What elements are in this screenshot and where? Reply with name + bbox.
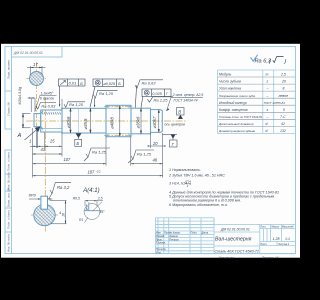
- svg-text:Коэфф. смещения: Коэфф. смещения: [219, 108, 248, 112]
- svg-text:48: 48: [153, 157, 158, 162]
- svg-text:Б: Б: [76, 141, 79, 146]
- svg-text:6 Маркировать обозначение, т.о: 6 Маркировать обозначение, т.о.: [169, 203, 228, 207]
- svg-text:Т.контр.: Т.контр.: [156, 242, 166, 245]
- svg-text:0,01: 0,01: [69, 81, 77, 86]
- svg-text:М20х1,5-8g: М20х1,5-8g: [18, 87, 22, 105]
- svg-text:132: 132: [280, 129, 286, 133]
- svg-text:Ra 1,25: Ra 1,25: [154, 98, 169, 103]
- svg-text:Делительный диаметр: Делительный диаметр: [218, 122, 254, 126]
- svg-text:Вал-шестерня: Вал-шестерня: [215, 236, 252, 242]
- svg-text:Подп. и дата: Подп. и дата: [6, 210, 10, 229]
- svg-text:Перв. примен.: Перв. примен.: [6, 59, 10, 79]
- svg-text:Инв. № дубл.: Инв. № дубл.: [6, 171, 10, 190]
- svg-text:Ra 1,25: Ra 1,25: [137, 152, 152, 157]
- svg-text:Подп.: Подп.: [191, 232, 198, 235]
- svg-text:Угол наклона: Угол наклона: [219, 87, 241, 91]
- svg-text:–: –: [266, 115, 269, 119]
- svg-text:26: 26: [62, 213, 66, 218]
- svg-text:Диаметр вершин зубьев: Диаметр вершин зубьев: [218, 129, 255, 133]
- svg-text:Ra 1,25: Ra 1,25: [69, 102, 84, 107]
- svg-text:107: 107: [64, 157, 72, 162]
- svg-text:⌀0,025: ⌀0,025: [103, 82, 116, 86]
- svg-text:Б: Б: [80, 81, 83, 86]
- svg-text:1,6х45°: 1,6х45°: [41, 91, 54, 95]
- svg-text:42: 42: [281, 122, 285, 126]
- svg-text:8: 8: [283, 87, 285, 91]
- svg-text:20: 20: [281, 80, 286, 84]
- svg-text:⌀48k8: ⌀48k8: [110, 116, 115, 129]
- svg-text:ГОСТ 13755-81: ГОСТ 13755-81: [264, 101, 286, 105]
- svg-text:8Р9: 8Р9: [29, 193, 37, 198]
- svg-text:25: 25: [49, 139, 55, 144]
- svg-text:Ra 0,63: Ra 0,63: [142, 80, 157, 85]
- svg-text:Дата: Дата: [201, 232, 209, 235]
- svg-text:Сталь 40Х ГОСТ 4543-71: Сталь 40Х ГОСТ 4543-71: [215, 250, 259, 254]
- svg-text:Ra 3,2: Ra 3,2: [57, 185, 70, 190]
- svg-text:7-С: 7-С: [280, 115, 286, 119]
- svg-text:Лист: Лист: [259, 243, 266, 246]
- svg-text:⌀30k6: ⌀30k6: [66, 116, 71, 129]
- svg-text:-0,2: -0,2: [96, 170, 101, 174]
- svg-text:левое: левое: [278, 94, 289, 98]
- svg-text:ДМ 02.01.00.00.01: ДМ 02.01.00.00.01: [220, 227, 250, 231]
- svg-text:Ra 0,63: Ra 0,63: [41, 104, 56, 109]
- svg-text:х: х: [266, 108, 269, 112]
- svg-text:⌀38k6: ⌀38k6: [135, 116, 140, 129]
- svg-text:Утв.: Утв.: [156, 251, 162, 254]
- svg-text:R0,5: R0,5: [73, 196, 80, 200]
- svg-text:2 отв. центр. А2,5: 2 отв. центр. А2,5: [172, 93, 204, 97]
- svg-text:Формат А4: Формат А4: [262, 255, 279, 259]
- svg-text:z: z: [266, 80, 269, 84]
- svg-text:ось центров: ось центров: [165, 123, 186, 127]
- svg-text:Подп. и дата: Подп. и дата: [6, 152, 10, 171]
- svg-text:0: 0: [283, 108, 285, 112]
- svg-text:Взам. инв. №: Взам. инв. №: [6, 188, 10, 207]
- svg-text:Степень точн. по ГОСТ 1643-81: Степень точн. по ГОСТ 1643-81: [219, 115, 263, 119]
- svg-text:6 фасок: 6 фасок: [40, 97, 54, 101]
- svg-text:43: 43: [41, 147, 46, 152]
- svg-text:2,5: 2,5: [280, 73, 286, 77]
- svg-text:Ra 1,25: Ra 1,25: [99, 91, 114, 96]
- svg-text:В: В: [178, 110, 181, 115]
- svg-text:ДМ 02.01.00.00.01: ДМ 02.01.00.00.01: [13, 51, 43, 55]
- svg-text:⌀30k7: ⌀30k7: [152, 116, 157, 129]
- svg-text:–: –: [266, 87, 269, 91]
- svg-text:Петров: Петров: [169, 238, 179, 241]
- svg-text:1:1: 1:1: [285, 237, 290, 241]
- svg-text:45°: 45°: [100, 210, 106, 214]
- svg-text:2,5: 2,5: [97, 197, 103, 201]
- svg-text:Листов 1: Листов 1: [277, 243, 290, 246]
- svg-text:): ): [283, 59, 286, 65]
- svg-text:Копировал: Копировал: [219, 255, 234, 259]
- svg-text:Лит.: Лит.: [259, 226, 266, 229]
- svg-text:ГОСТ 14034-74: ГОСТ 14034-74: [174, 98, 198, 102]
- svg-text:Масса: Масса: [271, 226, 279, 229]
- svg-text:Число зубьев: Число зубьев: [219, 80, 241, 84]
- svg-text:187: 187: [88, 170, 96, 175]
- svg-text:m: m: [266, 73, 269, 77]
- svg-text:А: А: [17, 133, 22, 139]
- svg-text:Ra 1,25: Ra 1,25: [92, 150, 107, 155]
- svg-text:Справ. №: Справ. №: [6, 102, 10, 116]
- svg-text:IT14: IT14: [185, 180, 191, 184]
- svg-text:1 Нормализовать.: 1 Нормализовать.: [169, 168, 201, 172]
- svg-text:Направление линии зуба: Направление линии зуба: [219, 94, 255, 98]
- svg-text:Масштаб: Масштаб: [282, 226, 294, 229]
- svg-text:R1: R1: [79, 218, 83, 222]
- svg-text:–: –: [266, 94, 269, 98]
- svg-text:17: 17: [33, 62, 38, 67]
- svg-text:20: 20: [152, 141, 158, 146]
- svg-text:Инв. № подл.: Инв. № подл.: [6, 233, 10, 252]
- svg-text:А(4:1): А(4:1): [82, 188, 99, 194]
- svg-text:1: 1: [29, 139, 31, 144]
- svg-text:1,28: 1,28: [273, 237, 280, 241]
- svg-text:⌀35,5: ⌀35,5: [83, 118, 88, 130]
- svg-text:0,025: 0,025: [152, 92, 162, 96]
- svg-text:Исходный контур: Исходный контур: [219, 101, 247, 105]
- svg-text:2 Зубья ТВЧ 1,6 мм, 46...51 HR: 2 Зубья ТВЧ 1,6 мм, 46...51 HRC: [168, 174, 225, 178]
- svg-text:Модуль: Модуль: [219, 73, 231, 77]
